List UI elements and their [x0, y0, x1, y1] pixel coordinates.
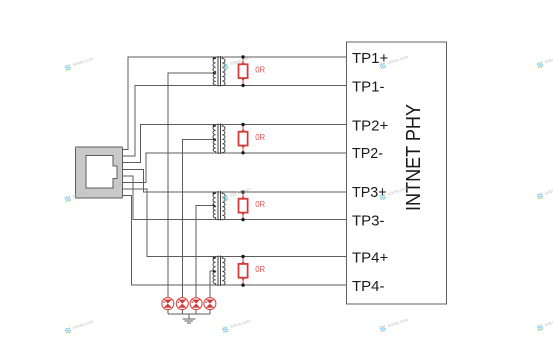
- resistor R4 0R: [239, 255, 266, 287]
- TVS diode D1: [162, 298, 174, 310]
- svg-text:TP4-: TP4-: [352, 278, 385, 295]
- svg-text:TP1-: TP1-: [352, 78, 385, 95]
- wire pin7 to T4 primary top and TP4+: [123, 189, 347, 256]
- RJ45 connector J1: [76, 147, 123, 198]
- svg-text:0R: 0R: [255, 265, 265, 274]
- wire T1 center tap to D1: [168, 73, 216, 298]
- TVS diode D2: [176, 298, 188, 310]
- svg-text:0R: 0R: [255, 200, 265, 209]
- TVS diode D4: [204, 298, 216, 310]
- wire T2 center tap to D2: [182, 139, 215, 297]
- ground: [182, 319, 195, 323]
- wire pin4 to T3 primary top and TP3+: [123, 169, 347, 192]
- transformer T2: [213, 124, 225, 154]
- svg-text:INTNET PHY: INTNET PHY: [403, 104, 425, 211]
- svg-text:TP1+: TP1+: [352, 50, 389, 67]
- wire D1 to ground bus: [167, 310, 169, 314]
- wire pin5 to T3 primary bottom and TP3-: [123, 176, 347, 220]
- resistor R1 0R: [239, 55, 266, 87]
- wire pin1 to T1 primary top and TP1+: [123, 57, 347, 150]
- wire T3 center tap to D3: [196, 206, 216, 298]
- transformer T1: [213, 56, 225, 86]
- wire T4 center tap to D4: [210, 271, 216, 298]
- wire ground stem: [188, 314, 190, 319]
- svg-text:TP2-: TP2-: [352, 146, 383, 162]
- wire pin8 to T4 primary bottom and TP4-: [123, 196, 347, 285]
- wire D4 to ground bus: [209, 310, 211, 314]
- svg-text:TP2+: TP2+: [352, 118, 389, 135]
- transformer T4: [213, 256, 225, 287]
- wire ground bus: [168, 313, 210, 315]
- PHY IC U1 INTNET PHY: [347, 42, 447, 304]
- resistor R2 0R: [239, 123, 266, 155]
- svg-text:0R: 0R: [255, 65, 265, 74]
- svg-text:TP4+: TP4+: [352, 250, 389, 267]
- transformer T3: [213, 191, 225, 221]
- wire D2 to ground bus: [181, 310, 183, 314]
- svg-text:0R: 0R: [255, 133, 265, 142]
- resistor R3 0R: [239, 190, 266, 221]
- svg-text:TP3-: TP3-: [352, 213, 385, 230]
- TVS diode D3: [190, 298, 202, 310]
- wire pin6 to T2 primary bottom and TP2-: [123, 153, 347, 183]
- wire pin3 to T2 primary top and TP2+: [123, 125, 347, 163]
- wire D3 to ground bus: [195, 310, 197, 314]
- wire pin2 to T1 primary bottom and TP1-: [123, 85, 347, 156]
